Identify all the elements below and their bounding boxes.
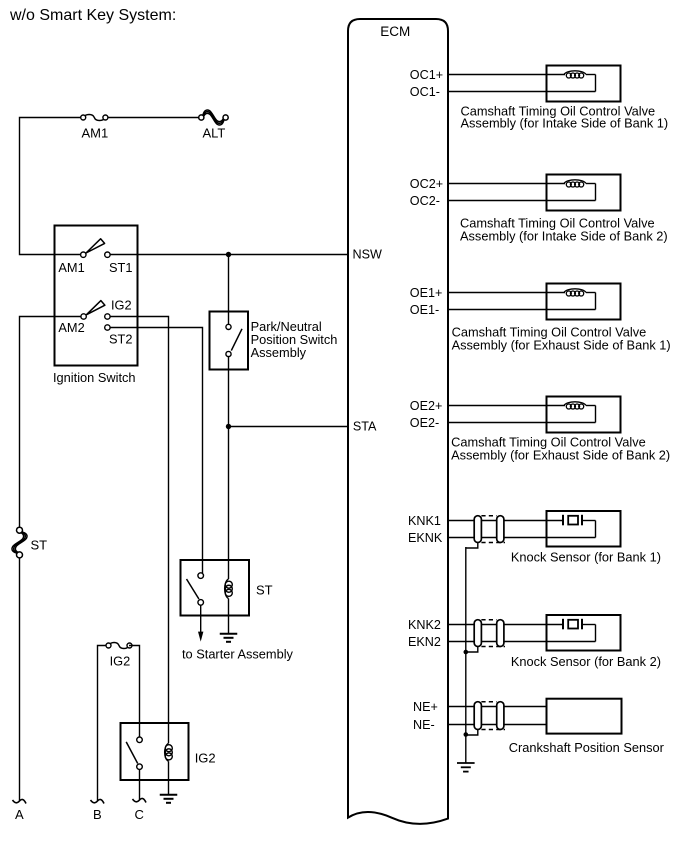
label: Camshaft Timing Oil Control Valve / Assembly (for Exhaust Side of Bank 2) [451,435,670,463]
crankshaft position sensor box [547,699,622,734]
pin label EKN2 [408,635,441,649]
wire OE1+ from ECM to valve coil [448,292,564,294]
svg-text:OE1+: OE1+ [410,286,443,300]
label: to Starter Assembly [182,647,294,662]
wire: shield drain bus down to ground [465,547,467,763]
wire: ST relay coil to ground [228,599,230,634]
svg-text:ST: ST [31,537,48,552]
svg-text:EKN2: EKN2 [408,635,441,649]
ground: IG2 relay coil [160,795,178,803]
fusible link ALT [199,110,229,141]
label: Knock Sensor (for Bank 2) [511,654,661,669]
wire EKNK from ECM to sensor [448,537,596,539]
svg-text:IG2: IG2 [111,298,132,313]
valve solenoid coil OE1 [564,289,596,310]
oil control valve box OC1 [547,66,621,102]
svg-text:OC2+: OC2+ [410,177,443,191]
knock sensor box (Knock Sensor (for Bank 2)) [547,615,621,651]
pin label OE1- [410,303,439,317]
wire: NSW junction down to park/neutral switch [228,255,230,325]
node: NSW / park-neutral junction [226,252,231,257]
node: NE shield drain junction [464,732,469,737]
oil control valve box OE1 [547,284,621,320]
wire OE1- from ECM to valve [448,309,596,311]
wire: park/neutral switch to STA junction and ST relay coil [228,357,230,579]
ignition switch contact AM1 [58,252,86,275]
pin label OE1+ [410,286,443,300]
svg-text:EKNK: EKNK [408,531,443,545]
shielded cable NE+/NE-: shield capsule 2 [497,702,504,730]
pin label OC2- [410,194,440,208]
park/neutral switch contact top [226,324,231,329]
connector C [133,798,147,822]
wire: AM1 fuse to ALT fusible link [108,117,199,119]
pin label KNK2 [408,618,441,632]
wire: ignition ST2 contact to ST relay switch [110,328,203,574]
pin label OC1- [410,85,440,99]
wire: ST link down to connector A [19,558,21,801]
IG2 relay switch contact bottom [137,764,143,770]
relay ST box [181,560,273,616]
svg-text:Assembly (for Exhaust Side of: Assembly (for Exhaust Side of Bank 1) [452,338,671,353]
wire KNK2 from ECM to sensor [448,624,563,626]
svg-text:Crankshaft Position Sensor: Crankshaft Position Sensor [509,740,665,755]
park/neutral switch contact bottom [226,351,231,356]
svg-text:OC1-: OC1- [410,85,440,99]
shielded cable NE+/NE-: shield dashed bottom [481,729,505,731]
wire OC2+ from ECM to valve coil [448,183,564,185]
ST relay switch lever [187,579,199,599]
ignition switch contact ST1 [105,252,133,275]
svg-text:ST: ST [256,583,273,598]
wire OC2- from ECM to valve [448,200,596,202]
svg-text:Assembly (for Exhaust Side of: Assembly (for Exhaust Side of Bank 2) [451,448,670,463]
wire KNK1 from ECM to sensor [448,520,563,522]
wire NSW: ST1 to ECM [110,254,347,256]
svg-text:ST2: ST2 [109,331,132,346]
ground: ST relay coil [220,634,238,642]
svg-text:OE2-: OE2- [410,416,439,430]
svg-text:OC2-: OC2- [410,194,440,208]
wire OC1- from ECM to valve [448,91,596,93]
IG2 relay coil [165,743,173,761]
relay IG2 box [121,723,216,780]
IG2 relay switch contact top [137,737,143,743]
wire: battery feed from AM1 fuse down-left to ignition switch AM1 [20,118,83,255]
ST relay coil [225,579,233,599]
ignition switch contact AM2 [58,314,86,335]
svg-text:OC1+: OC1+ [410,68,443,82]
svg-text:KNK1: KNK1 [408,514,441,528]
wire NE+ from ECM to sensor [448,706,547,708]
ignition switch lever AM1 [86,239,105,253]
wire: ignition IG2 contact to IG2 relay coil [110,317,169,744]
svg-text:Assembly: Assembly [251,345,307,360]
svg-text:Ignition Switch: Ignition Switch [53,370,136,385]
label: Park/Neutral Position Switch Assembly [251,319,338,360]
shielded cable KNK2/EKN2: shield capsule 1 [474,620,481,647]
label: Camshaft Timing Oil Control Valve / Assembly (for Intake Side of Bank 1) [461,103,669,130]
wire OE2- from ECM to valve [448,422,596,424]
shielded cable KNK2/EKN2: shield capsule 2 [497,620,504,647]
wire: shield drain of KNK1/EKNK pair [466,543,478,549]
ECM box [348,19,448,824]
shielded cable KNK1/EKNK: shield capsule 1 [474,516,481,543]
knock sensor element symbol [563,619,596,642]
svg-text:ST1: ST1 [109,260,132,275]
shielded cable NE+/NE-: shield capsule 1 [474,702,481,730]
park/neutral position switch assembly box [210,312,249,370]
node: STA junction [226,424,231,429]
svg-text:NE-: NE- [413,718,435,732]
label: Crankshaft Position Sensor [509,740,665,755]
wire: IG2 fuse right leg down to IG2 relay switch [129,646,140,738]
svg-text:IG2: IG2 [110,654,131,669]
shielded cable KNK1/EKNK: shield capsule 2 [497,516,504,543]
pin label OC2+ [410,177,443,191]
pin label NSW [353,248,382,262]
IG2 relay switch lever [126,742,138,764]
svg-text:Assembly (for Intake Side of B: Assembly (for Intake Side of Bank 2) [460,229,668,244]
ignition switch contact ST2 [105,325,133,347]
pin label OE2+ [410,399,443,413]
svg-text:ALT: ALT [203,126,226,141]
shielded cable KNK2/EKN2: shield dashed top [481,619,496,621]
label: Camshaft Timing Oil Control Valve / Assembly (for Intake Side of Bank 2) [460,215,668,243]
oil control valve box OC2 [547,175,621,211]
fuse AM1 [81,115,109,141]
ignition switch contact IG2 [105,298,132,320]
svg-text:Assembly (for Intake Side of B: Assembly (for Intake Side of Bank 1) [461,116,669,131]
ground: sensor shield drain [457,763,475,772]
svg-text:AM2: AM2 [58,320,84,335]
wire: ST relay output with arrow to starter [198,605,203,641]
wire EKN2 from ECM to sensor [448,641,596,643]
fuse IG2 [106,643,132,669]
fusible link ST [12,527,47,558]
wire: IG2 fuse left leg to connector B [98,646,110,802]
svg-text:Knock Sensor (for Bank 1): Knock Sensor (for Bank 1) [511,549,661,564]
pin label OE2- [410,416,439,430]
title: w/o Smart Key System [9,7,176,24]
node: KNK2 shield drain junction [464,650,469,655]
shielded cable KNK2/EKN2: shield dashed bottom [481,646,505,648]
svg-text:IG2: IG2 [195,751,216,766]
svg-text:AM1: AM1 [58,260,84,275]
park/neutral switch lever [231,329,242,351]
wire OE2+ from ECM to valve coil [448,405,564,407]
pin label EKNK [408,531,443,545]
svg-text:B: B [93,807,102,822]
knock sensor box (Knock Sensor (for Bank 1)) [547,511,621,547]
ignition switch lever AM2 [86,301,105,315]
wire STA: junction to ECM [229,426,348,428]
svg-text:w/o Smart Key System:: w/o Smart Key System: [9,7,176,24]
svg-text:NE+: NE+ [413,700,438,714]
valve solenoid coil OC1 [564,71,596,92]
svg-text:OE1-: OE1- [410,303,439,317]
oil control valve box OE2 [547,397,621,433]
label: Knock Sensor (for Bank 1) [511,549,661,564]
wire NE- from ECM to sensor [448,724,547,726]
svg-text:OE2+: OE2+ [410,399,443,413]
svg-text:STA: STA [353,420,377,434]
wire: shield drain of NE+/NE- pair [466,730,478,736]
svg-text:Knock Sensor (for Bank 2): Knock Sensor (for Bank 2) [511,654,661,669]
wire: IG2 relay switch to connector C [139,770,141,801]
svg-text:A: A [15,807,24,822]
ignition switch box [53,226,138,386]
pin label NE- [413,718,435,732]
pin label STA [353,420,377,434]
pin label NE+ [413,700,438,714]
connector A [13,799,27,822]
svg-text:KNK2: KNK2 [408,618,441,632]
shielded cable NE+/NE-: shield dashed top [481,701,496,703]
connector B [91,799,105,822]
svg-text:AM1: AM1 [82,126,109,141]
wire: AM2 to left, down to ST fusible link [20,317,82,531]
svg-text:ECM: ECM [380,24,410,39]
valve solenoid coil OE2 [564,402,596,423]
ST relay switch contact top [198,573,204,579]
wire: IG2 relay coil to ground [168,761,170,794]
svg-text:to Starter Assembly: to Starter Assembly [182,647,294,662]
svg-text:C: C [135,807,144,822]
wire OC1+ from ECM to valve coil [448,74,564,76]
valve solenoid coil OC2 [564,180,596,201]
svg-text:NSW: NSW [353,248,382,262]
wire: shield drain of KNK2/EKN2 pair [466,647,478,653]
shielded cable KNK1/EKNK: shield dashed bottom [481,542,505,544]
ST relay switch contact bottom [198,600,204,606]
shielded cable KNK1/EKNK: shield dashed top [481,515,496,517]
knock sensor element symbol [563,515,596,538]
pin label KNK1 [408,514,441,528]
label: Camshaft Timing Oil Control Valve / Assembly (for Exhaust Side of Bank 1) [452,325,671,353]
pin label OC1+ [410,68,443,82]
